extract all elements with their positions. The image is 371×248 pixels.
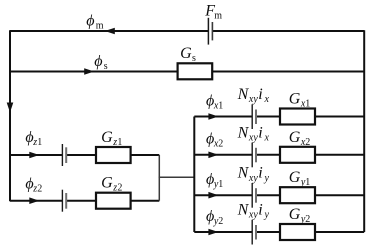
arrow phi_z2: [29, 197, 39, 204]
arrow phi_x1: [208, 113, 218, 120]
permeance G_x2 (box): [280, 147, 315, 163]
wire branch x2: [194, 154, 364, 156]
arrow phi_s (points right on second wire): [84, 68, 94, 75]
wire z right bus vertical: [158, 155, 160, 201]
wire second loop (phi_s G_s) left segment: [10, 71, 178, 73]
mmf source F_m (battery): [208, 18, 212, 45]
permeance G_y2 (box): [280, 224, 315, 240]
arrow phi_y1: [208, 192, 218, 199]
wire top loop (phi_m) right segment: [212, 30, 364, 32]
wire top loop (phi_m) left segment: [10, 30, 208, 32]
wire left bus vertical: [9, 30, 11, 201]
mmf source N_xy*i_y branch y1 (battery): [252, 183, 256, 208]
wire branch x1: [194, 116, 364, 118]
wire branch z2: [10, 200, 159, 202]
wire branch y2: [194, 231, 364, 233]
mmf source branch z1 (battery): [62, 144, 66, 166]
wire branch y1: [194, 194, 364, 196]
arrow phi_m (points left on top wire): [105, 28, 115, 35]
wire branch z1: [10, 154, 159, 156]
arrow phi_x2: [208, 152, 218, 159]
permeance G_y1 (box): [280, 187, 315, 203]
permeance G_z2 (box): [96, 193, 131, 209]
wire second loop (phi_s G_s) right segment: [212, 71, 364, 73]
wire connector z-network to right bus: [159, 176, 195, 178]
wire right bus vertical: [363, 30, 365, 232]
arrow down on left bus: [7, 103, 14, 113]
permeance G_s (box): [178, 63, 213, 79]
arrow phi_y2: [208, 229, 218, 236]
permeance G_x1 (box): [280, 109, 315, 125]
mmf source N_xy*i_x branch x1 (battery): [252, 104, 256, 129]
wire inner bus vertical (feeds x/y branches): [193, 117, 195, 233]
mmf source N_xy*i_y branch y2 (battery): [252, 220, 256, 245]
mmf source N_xy*i_x branch x2 (battery): [252, 143, 256, 168]
mmf source branch z2 (battery): [62, 190, 66, 212]
arrow phi_z1: [29, 152, 39, 159]
permeance G_z1 (box): [96, 147, 131, 163]
